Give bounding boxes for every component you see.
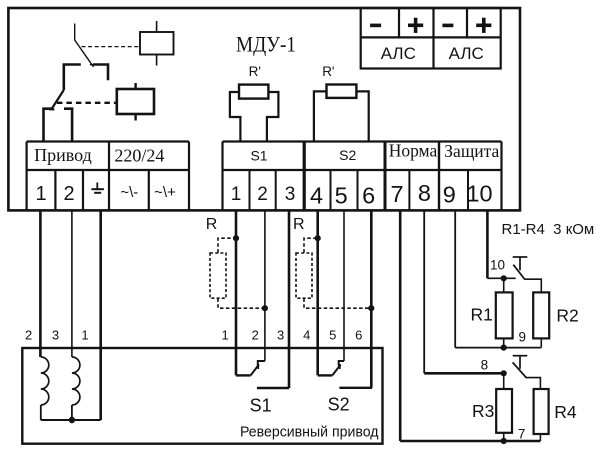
svg-text:7: 7 xyxy=(390,181,403,207)
svg-text:5: 5 xyxy=(329,328,336,343)
АЛС terminal block xyxy=(361,8,501,69)
svg-text:3: 3 xyxy=(285,184,296,205)
dashed wire R2 top to wire 4 xyxy=(304,238,318,252)
relay coil K2 xyxy=(117,83,154,121)
svg-text:Привод: Привод xyxy=(34,145,92,165)
resistor R' above S1 xyxy=(239,85,268,99)
junction node wire 6 xyxy=(368,305,374,311)
junction node 9 xyxy=(501,345,507,351)
wire terminal 4 down xyxy=(316,210,319,375)
svg-text:~\-: ~\- xyxy=(120,184,138,201)
wire R' S2 right xyxy=(356,91,368,141)
wire R1 bottom stub xyxy=(503,338,505,347)
wire winding B to bar xyxy=(71,405,73,420)
terminal table Привод / 220-24 xyxy=(27,142,189,211)
wire Привод 2 to motor winding B xyxy=(71,210,73,357)
wire 10 to node xyxy=(487,277,515,279)
svg-text:4: 4 xyxy=(310,183,323,209)
switch S1 tick xyxy=(257,364,259,369)
wire 7 bar xyxy=(400,440,540,443)
svg-text:Норма: Норма xyxy=(389,141,438,161)
svg-text:1: 1 xyxy=(231,184,242,205)
svg-text:2: 2 xyxy=(25,328,32,343)
svg-text:~\+: ~\+ xyxy=(154,184,176,201)
motor common bar xyxy=(41,419,101,421)
svg-text:220/24: 220/24 xyxy=(114,145,164,165)
switch S2 fixed contact xyxy=(318,374,333,376)
button SB1 blade xyxy=(513,265,525,280)
svg-text:10: 10 xyxy=(490,258,505,273)
wire node to R4 top xyxy=(527,378,541,389)
main unit box МДУ-1 xyxy=(8,8,520,210)
dashed wire R2 bottom to wire 6 xyxy=(304,298,371,308)
wire R3 bottom stub xyxy=(503,433,505,441)
svg-text:6: 6 xyxy=(362,183,375,209)
wire terminal 3 down xyxy=(288,210,291,388)
dashed resistor R (S1) xyxy=(210,253,226,298)
switch S1 blade xyxy=(251,365,259,376)
dashed link K1 xyxy=(82,46,141,48)
svg-text:Реверсивный привод: Реверсивный привод xyxy=(240,424,379,440)
resistor R1 xyxy=(496,292,513,338)
svg-text:4: 4 xyxy=(303,328,310,343)
wire node 10 to R1 xyxy=(503,278,505,292)
switch S1 hook xyxy=(258,361,265,366)
svg-text:3: 3 xyxy=(52,328,59,343)
plus terminal 2 xyxy=(476,18,491,33)
wire winding A to bar xyxy=(40,405,42,420)
terminal table S1 S2 Норма Защита xyxy=(223,142,502,211)
wire R' S2 left xyxy=(314,91,327,141)
svg-text:6: 6 xyxy=(355,328,362,343)
wire terminal 5 down xyxy=(343,210,345,361)
svg-text:S2: S2 xyxy=(328,395,350,415)
resistor R2 xyxy=(533,292,549,338)
svg-text:8: 8 xyxy=(418,180,431,206)
switch S2 tick xyxy=(339,364,341,369)
wire node 8 to R3 xyxy=(503,373,505,389)
svg-text:9: 9 xyxy=(443,181,456,207)
wire Привод 1 to motor winding A xyxy=(39,210,42,357)
resistor R' above S2 xyxy=(327,85,357,98)
dashed wire R bottom to wire 2 xyxy=(218,298,265,308)
wire 9 bar xyxy=(455,347,541,349)
switch S1 bottom bar xyxy=(257,387,289,389)
button SB2 blade xyxy=(513,362,527,378)
svg-text:2: 2 xyxy=(63,183,74,205)
svg-text:5: 5 xyxy=(335,183,348,209)
wire node to R2 top xyxy=(525,279,542,292)
svg-text:R1: R1 xyxy=(471,305,493,325)
svg-text:АЛС: АЛС xyxy=(381,44,416,63)
dashed link K2 xyxy=(57,102,117,104)
wire terminal 1 down xyxy=(235,210,238,375)
wire terminal 9 down xyxy=(454,210,456,347)
wire contact K2 to Привод terminal 1 xyxy=(44,109,52,142)
relay contact K2 rail xyxy=(64,65,108,91)
switch S2 hook xyxy=(339,361,344,366)
wire R' S1 right xyxy=(267,92,279,142)
relay contact K1 (thin changeover) xyxy=(75,24,95,67)
button SB2 actuator xyxy=(513,356,528,369)
switch S1 fixed contact xyxy=(236,374,251,376)
ground symbol terminal xyxy=(91,183,104,193)
minus terminal 2 xyxy=(442,24,453,28)
junction node 10 xyxy=(501,275,507,281)
motor winding A xyxy=(41,357,49,405)
wire terminal 7 down xyxy=(399,210,402,441)
dashed wire R top to wire 1 xyxy=(218,238,236,252)
switch S2 blade xyxy=(332,365,340,376)
svg-text:2: 2 xyxy=(252,328,259,343)
svg-text:1: 1 xyxy=(35,183,46,205)
minus terminal 1 xyxy=(370,24,381,28)
junction node 8 xyxy=(501,370,507,376)
wire terminal 2 down xyxy=(264,210,266,361)
wire R2 bottom stub xyxy=(540,338,542,347)
svg-text:R1-R4 3 кОм: R1-R4 3 кОм xyxy=(502,221,595,238)
svg-text:8: 8 xyxy=(481,357,489,372)
wire R' S1 left xyxy=(230,92,241,142)
switch S2 bottom bar xyxy=(339,387,372,389)
junction node wire 1 xyxy=(233,235,239,241)
svg-text:АЛС: АЛС xyxy=(449,44,484,63)
svg-text:1: 1 xyxy=(221,328,228,343)
svg-text:R': R' xyxy=(249,64,261,79)
svg-text:R': R' xyxy=(322,64,334,79)
svg-text:1: 1 xyxy=(81,328,88,343)
svg-text:7: 7 xyxy=(518,426,526,441)
wire terminal 10 down xyxy=(486,210,489,278)
svg-text:R2: R2 xyxy=(556,306,578,326)
wire ground terminal down xyxy=(99,210,102,420)
motor winding B xyxy=(72,357,80,405)
relay coil K1 xyxy=(140,21,174,66)
dashed resistor R (S2) xyxy=(296,253,312,298)
wire contact K2 to Привод terminal 2 xyxy=(64,109,72,142)
svg-text:2: 2 xyxy=(257,184,268,205)
svg-text:S1: S1 xyxy=(250,396,272,416)
resistor R4 xyxy=(534,389,549,434)
svg-text:S1: S1 xyxy=(250,147,267,163)
junction node wire 2 xyxy=(262,305,268,311)
wire terminal 6 down xyxy=(370,210,373,387)
button SB1 actuator xyxy=(513,257,528,270)
wire R4 bottom stub xyxy=(539,434,541,441)
svg-text:R4: R4 xyxy=(554,402,577,422)
wire terminal 8 down xyxy=(423,210,425,373)
svg-text:Защита: Защита xyxy=(444,141,499,161)
svg-text:S2: S2 xyxy=(339,147,356,163)
resistor R3 xyxy=(496,389,512,433)
svg-text:3: 3 xyxy=(277,328,284,343)
junction node 7 xyxy=(501,438,507,444)
plus terminal 1 xyxy=(408,18,423,33)
svg-text:R: R xyxy=(206,216,218,233)
svg-text:9: 9 xyxy=(519,330,527,345)
svg-text:R3: R3 xyxy=(472,401,494,421)
junction node motor common xyxy=(69,417,75,423)
relay contact K2 blade xyxy=(49,90,64,110)
svg-text:10: 10 xyxy=(466,181,492,207)
box Реверсивный привод xyxy=(22,348,382,444)
svg-text:R: R xyxy=(293,216,305,233)
svg-text:МДУ-1: МДУ-1 xyxy=(236,31,296,56)
junction node wire 4 xyxy=(315,235,321,241)
wire 8 bar xyxy=(424,372,504,375)
